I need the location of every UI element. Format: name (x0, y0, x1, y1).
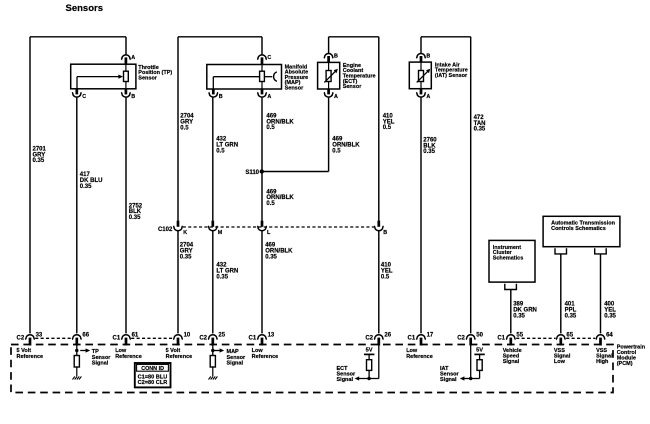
label VSS Signal High pin 64 (596, 348, 613, 365)
pin number 61 (132, 332, 139, 338)
svg-text:5V: 5V (366, 348, 373, 354)
svg-text:B: B (131, 94, 135, 100)
svg-text:Low: Low (554, 359, 566, 365)
svg-text:0.35: 0.35 (474, 127, 486, 133)
connector PCM pin 50 (466, 335, 475, 346)
connector PCM pin 10 (173, 335, 182, 346)
splice S110 (260, 169, 264, 173)
svg-text:C2=80 CLR: C2=80 CLR (138, 380, 168, 386)
pin label B ECT (334, 53, 338, 59)
svg-text:CONN ID: CONN ID (141, 366, 164, 372)
wire label 417 DK BLU 0.35 (80, 172, 103, 190)
connector PCM pin 25 (208, 335, 217, 346)
wire label 401 PPL 0.35 (565, 302, 577, 320)
svg-text:C1: C1 (497, 335, 505, 341)
svg-text:High: High (596, 359, 609, 365)
wire label 400 YEL 0.35 (604, 302, 616, 320)
svg-text:Reference: Reference (17, 354, 44, 360)
wire IAT signal arrow (460, 376, 471, 380)
label C1 at pin 55 (497, 335, 505, 341)
svg-text:0.5: 0.5 (180, 126, 189, 132)
svg-text:0.5: 0.5 (332, 149, 341, 155)
connector PCM pin 17 (416, 335, 425, 346)
dashed link pins 55-65 (516, 337, 555, 339)
svg-text:K: K (183, 230, 187, 236)
wire 400 YEL (600, 254, 602, 334)
connector C102 pin M (208, 221, 217, 231)
svg-text:C1: C1 (249, 335, 257, 341)
svg-text:0.35: 0.35 (216, 275, 228, 281)
dashed link pins 33-66 (35, 337, 72, 339)
svg-text:26: 26 (384, 332, 391, 338)
svg-text:Reference: Reference (115, 354, 142, 360)
svg-text:66: 66 (82, 332, 89, 338)
svg-text:C2: C2 (365, 335, 373, 341)
pin label L C102 (267, 230, 271, 236)
label 5 Volt Reference pin 33 (17, 348, 44, 360)
svg-text:Sensors: Sensors (66, 3, 104, 14)
connector pin B MAP sensor (209, 89, 218, 97)
pin number 25 (218, 332, 225, 338)
label 5 Volt Reference pin 10 (166, 348, 193, 360)
connector pin A ECT sensor (324, 89, 333, 97)
svg-text:0.35: 0.35 (80, 184, 92, 190)
wire 432 LT GRN upper (212, 98, 214, 221)
thermistor IAT sensor internal (409, 62, 431, 89)
svg-text:0.5: 0.5 (381, 275, 390, 281)
wire IAT pin 50 internal (469, 345, 472, 381)
svg-text:S110: S110 (245, 170, 259, 176)
connector PCM pin 13 (257, 335, 266, 346)
wire label 432 LT GRN 0.5 (216, 137, 238, 155)
svg-text:Signal: Signal (503, 359, 520, 365)
svg-text:0.35: 0.35 (265, 255, 277, 261)
wire ECT signal arrow (355, 376, 379, 380)
wire label 469 ORN/BLK 0.5 MAP (266, 113, 294, 131)
svg-text:C2: C2 (17, 335, 25, 341)
svg-text:17: 17 (427, 332, 434, 338)
resistor ECT pull-up (367, 360, 372, 371)
connector pin B TP sensor (121, 89, 130, 97)
wire MAP pin C drop (261, 37, 263, 55)
connector C102 pin K (173, 221, 182, 231)
label C2 at pin 33 (17, 335, 25, 341)
label TP Sensor Signal (92, 349, 112, 366)
PCM dashed box (11, 345, 613, 393)
pin number 33 (36, 332, 43, 338)
wire IAT resistor to node (471, 370, 480, 378)
pin number 13 (268, 332, 275, 338)
svg-text:0.35: 0.35 (33, 158, 45, 164)
wire label 2704 GRY 0.35 (180, 243, 194, 261)
svg-text:C: C (82, 94, 86, 100)
wire 5V reference rail to TP sensor (30, 36, 126, 38)
svg-text:Signal: Signal (337, 377, 354, 383)
connector C102 dashed line (183, 226, 374, 228)
node MAP sensor signal (211, 345, 224, 356)
svg-text:0.5: 0.5 (266, 201, 275, 207)
connector pin A MAP sensor (257, 89, 266, 97)
svg-text:0.5: 0.5 (216, 149, 225, 155)
label MAP Sensor Signal (227, 349, 247, 366)
wire IAT pin B drop (420, 37, 422, 53)
pin label B IAT (426, 53, 430, 59)
connector PCM pin 61 (121, 335, 130, 346)
supply 5V ECT (364, 348, 374, 360)
svg-text:0.35: 0.35 (513, 313, 525, 319)
label C1 at pin 13 (249, 335, 257, 341)
wire label 410 YEL 0.5 lower (381, 263, 393, 281)
svg-text:13: 13 (268, 332, 275, 338)
wire label 469 ORN/BLK 0.5 below S110 (266, 189, 294, 207)
svg-text:Reference: Reference (406, 354, 433, 360)
label Low Reference pin 61 (115, 348, 142, 360)
pin label A ECT (334, 94, 338, 100)
ground TP signal (73, 376, 82, 379)
connector pin A IAT sensor (416, 89, 425, 97)
svg-text:Reference: Reference (252, 354, 279, 360)
svg-text:Signal: Signal (227, 360, 244, 366)
label Low Reference pin 13 (252, 348, 279, 360)
svg-text:Sensor: Sensor (343, 84, 363, 90)
pin number 65 (566, 332, 573, 338)
pin number 55 (516, 332, 523, 338)
svg-text:Sensor: Sensor (285, 86, 305, 92)
title Sensors (66, 3, 104, 14)
connector PCM pin 33 (25, 335, 34, 346)
connector tab Instrument Cluster (505, 284, 517, 290)
svg-text:0.5: 0.5 (383, 125, 392, 131)
wire 469 ORN/BLK branch from ECT pin A (261, 98, 328, 172)
svg-text:A: A (334, 94, 338, 100)
connector C102 pin B (374, 221, 383, 231)
resistor TP pull-down (74, 356, 79, 368)
svg-text:50: 50 (476, 332, 483, 338)
connector tab ATC right (595, 248, 607, 254)
pin label A TP (131, 55, 135, 61)
svg-text:C: C (267, 55, 271, 61)
wire label 469 ORN/BLK 0.5 ECT branch (332, 137, 360, 155)
wire label 2752 BLK 0.35 (129, 203, 143, 221)
connector pin C MAP sensor (257, 55, 266, 65)
label C102 (158, 227, 173, 233)
wire label 389 DK GRN 0.35 (513, 302, 537, 320)
box Instrument Cluster Schematics (489, 240, 535, 282)
potentiometer MAP sensor internal (207, 65, 282, 90)
pin number 17 (427, 332, 434, 338)
resistor IAT pull-up (477, 360, 482, 371)
wire label 2701 GRY 0.35 (33, 146, 47, 164)
svg-text:65: 65 (566, 332, 573, 338)
pin label K C102 (183, 230, 187, 236)
svg-text:0.35: 0.35 (180, 255, 192, 261)
node TP sensor signal (75, 345, 90, 356)
wire resistor to ground MAP (212, 367, 214, 376)
pin number 26 (384, 332, 391, 338)
svg-text:A: A (426, 94, 430, 100)
pin number 10 (184, 332, 191, 338)
resistor MAP pull-down (210, 356, 215, 368)
svg-text:B: B (426, 53, 430, 59)
svg-text:B: B (383, 230, 387, 236)
ground MAP signal (209, 376, 218, 379)
wire label 2704 GRY 0.5 (180, 114, 194, 132)
pin label B MAP (219, 94, 223, 100)
pin label A IAT (426, 94, 430, 100)
pin number 66 (82, 332, 89, 338)
connector PCM pin 66 (72, 335, 81, 346)
svg-text:25: 25 (218, 332, 225, 338)
wire 5V reference rail to MAP sensor (178, 36, 262, 38)
svg-text:C1: C1 (113, 335, 121, 341)
wire 472 TAN (470, 37, 472, 334)
connector tab ATC left (555, 248, 567, 254)
svg-text:(PCM): (PCM) (617, 361, 633, 367)
svg-text:64: 64 (606, 332, 613, 338)
wire 469 ORN/BLK below splice (261, 231, 263, 334)
pin label C TP (82, 94, 86, 100)
svg-text:A: A (131, 55, 135, 61)
wire label 472 TAN 0.35 (474, 115, 486, 133)
wire label 432 LT GRN 0.35 (216, 263, 238, 281)
svg-text:0.35: 0.35 (565, 313, 577, 319)
pin label B C102 (383, 230, 387, 236)
svg-text:Schematics: Schematics (493, 256, 524, 262)
wire ECT pin B drop (328, 37, 330, 53)
wire 417 DK BLU (76, 98, 78, 334)
wire 2752 BLK (125, 98, 127, 334)
label Low Reference pin 17 (406, 348, 433, 360)
svg-text:0.35: 0.35 (129, 215, 141, 221)
supply 5V IAT (474, 348, 484, 360)
pin label M C102 (218, 230, 223, 236)
wire 410 YEL upper (378, 37, 380, 221)
svg-text:B: B (334, 53, 338, 59)
dashed link pins 61-10 (131, 337, 173, 339)
label ECT Sensor Signal (337, 366, 357, 383)
wire label 410 YEL 0.5 upper (383, 113, 395, 131)
svg-text:Signal: Signal (440, 377, 457, 383)
svg-text:Signal: Signal (92, 360, 109, 366)
label Manifold Absolute Pressure (MAP) Sensor (285, 64, 309, 91)
table CONN ID (135, 363, 171, 387)
connector pin B ECT sensor (324, 54, 333, 63)
svg-text:55: 55 (516, 332, 523, 338)
label VSS Signal Low pin 65 (554, 348, 571, 365)
wire ECT pin 26 internal (378, 345, 380, 379)
wire 2760 BLK (420, 98, 422, 334)
svg-text:C1: C1 (408, 335, 416, 341)
svg-text:0.5: 0.5 (266, 125, 275, 131)
svg-text:10: 10 (184, 332, 191, 338)
connector C102 pin L (257, 221, 266, 231)
svg-text:5V: 5V (476, 348, 483, 354)
label IAT Sensor Signal (440, 366, 460, 383)
pin number 50 (476, 332, 483, 338)
svg-text:(IAT) Sensor: (IAT) Sensor (435, 73, 468, 79)
svg-text:0.35: 0.35 (423, 149, 435, 155)
thermistor ECT sensor internal (318, 62, 340, 89)
wire 2704 GRY upper (177, 37, 179, 221)
label Throttle Position (TP) Sensor (138, 65, 172, 82)
wire ECT resistor to node (367, 370, 370, 380)
label C2 at pin 26 (365, 335, 373, 341)
potentiometer TP sensor internal (71, 64, 136, 89)
dashed link pins 65-64 (566, 337, 595, 339)
label C2 at pin 25 (199, 335, 207, 341)
connector pin C TP sensor (72, 89, 81, 97)
wire TP pin A drop (125, 37, 127, 55)
svg-text:Sensor: Sensor (138, 76, 158, 82)
label Vehicle Speed Signal pin 55 (503, 348, 522, 365)
wire label 469 ORN/BLK 0.35 (265, 243, 293, 261)
wire 469 ORN/BLK from MAP pin A (261, 98, 263, 221)
wire resistor to ground TP (76, 367, 78, 376)
pin number 64 (606, 332, 613, 338)
connector PCM pin 26 (374, 335, 383, 346)
svg-text:Controls Schematics: Controls Schematics (551, 226, 606, 232)
connector PCM pin 65 (556, 335, 565, 346)
box Automatic Transmission Controls Schematics (543, 216, 620, 246)
connector pin B IAT sensor (416, 54, 425, 63)
svg-text:C2: C2 (457, 335, 465, 341)
label C2 at pin 50 (457, 335, 465, 341)
pin label B TP (131, 94, 135, 100)
svg-text:C102: C102 (158, 227, 173, 233)
pin label A MAP (267, 94, 271, 100)
svg-text:0.35: 0.35 (604, 313, 616, 319)
wire 2701 GRY (29, 37, 31, 334)
label Intake Air Temperature (IAT) Sensor (435, 62, 468, 79)
connector PCM pin 55 (506, 335, 515, 346)
svg-text:Reference: Reference (166, 354, 193, 360)
svg-text:C2: C2 (199, 335, 207, 341)
wire 2704 GRY lower (177, 231, 179, 334)
label C1 at pin 61 (113, 335, 121, 341)
svg-text:B: B (219, 94, 223, 100)
svg-text:33: 33 (36, 332, 43, 338)
wire IAT sensor signal rail (421, 36, 471, 38)
wire 389 DK GRN (510, 290, 512, 334)
label C1 at pin 17 (408, 335, 416, 341)
label S110 (245, 170, 259, 176)
connector pin A TP sensor (121, 55, 130, 64)
label Engine Coolant Temperature (ECT) Sensor (343, 63, 376, 90)
connector PCM pin 64 (596, 335, 605, 346)
label Powertrain Control Module (PCM) (617, 345, 646, 367)
wire 432 LT GRN lower (212, 231, 214, 334)
wire label 2760 BLK 0.35 (423, 137, 437, 155)
wire ECT sensor signal rail (329, 36, 379, 38)
svg-text:M: M (218, 230, 223, 236)
svg-text:61: 61 (132, 332, 139, 338)
svg-text:A: A (267, 94, 271, 100)
pin label C MAP (267, 55, 271, 61)
wire 410 YEL lower (378, 231, 380, 334)
wire 401 PPL (560, 254, 562, 334)
